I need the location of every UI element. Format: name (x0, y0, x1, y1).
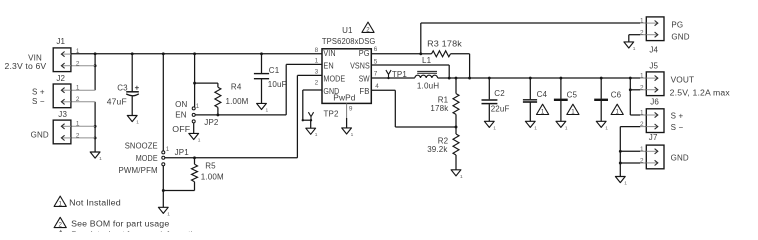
wire VOUT rail (438, 77, 641, 79)
svg-text:GND: GND (671, 153, 689, 162)
ground (JP2 OFF GND) (189, 133, 201, 143)
wire R4 bottom lead (217, 107, 219, 115)
svg-text:R1: R1 (438, 95, 449, 104)
wire stub J4 pins (640, 22, 646, 24)
capacitor C3 47uF polarized (107, 84, 139, 107)
svg-text:SW: SW (359, 74, 370, 83)
svg-text:1: 1 (76, 48, 80, 55)
svg-text:3: 3 (315, 68, 319, 75)
svg-text:178k: 178k (430, 104, 449, 113)
svg-text:GND: GND (31, 130, 49, 139)
capacitor C4 (not installed) (523, 78, 548, 121)
wire VOUT to J5.2 and J6.1 (629, 78, 631, 115)
test point TP1 (386, 70, 408, 79)
svg-text:2.5V, 1.2A max: 2.5V, 1.2A max (670, 88, 730, 97)
svg-text:1: 1 (460, 174, 463, 180)
partially clipped third legend row (55, 230, 202, 240)
svg-text:J5: J5 (649, 61, 658, 70)
svg-text:PG: PG (671, 21, 683, 30)
node junction TP2 (310, 119, 312, 121)
jumper JP2 (ON/EN/OFF) (192, 104, 219, 127)
svg-text:GND: GND (671, 32, 689, 41)
node junction J3 pin2 (94, 136, 97, 139)
wire stub J2 pin2 (71, 101, 95, 103)
warning triangle 2 (see BOM) (362, 22, 374, 33)
svg-text:47uF: 47uF (107, 98, 127, 107)
svg-text:6: 6 (374, 46, 378, 53)
wire stub J3 pin2 (71, 137, 95, 139)
wire R4 branch (195, 82, 218, 84)
test point TP2 (308, 109, 339, 120)
ground (C3 GND) (127, 116, 139, 126)
node junction R3/VOUT (468, 77, 471, 80)
svg-text:VIN: VIN (323, 49, 335, 58)
wire R1 leads (455, 78, 457, 94)
U1 pin numbers (315, 46, 380, 113)
node junction J3 pin1 (94, 125, 97, 128)
svg-text:1: 1 (616, 109, 620, 116)
svg-text:S −: S − (32, 97, 45, 106)
svg-text:2: 2 (640, 84, 644, 91)
svg-text:OFF: OFF (172, 125, 190, 134)
ground (J4 GND) (624, 42, 636, 52)
svg-text:1: 1 (76, 121, 80, 128)
svg-text:VOUT: VOUT (671, 76, 695, 85)
connector J1 (53, 48, 71, 72)
node junction PG/R3 (419, 52, 422, 55)
svg-text:Not Installed: Not Installed (69, 198, 121, 207)
svg-text:R5: R5 (205, 162, 216, 171)
svg-text:2: 2 (315, 80, 319, 87)
svg-text:1: 1 (605, 125, 608, 131)
svg-text:J1: J1 (56, 37, 65, 46)
svg-text:VSNS: VSNS (350, 62, 370, 71)
svg-text:1: 1 (167, 211, 170, 217)
node junction C5 (559, 77, 562, 80)
svg-text:4: 4 (375, 83, 379, 90)
wire stub J5 pins (640, 77, 646, 79)
svg-text:1: 1 (640, 146, 644, 153)
svg-text:1: 1 (640, 18, 644, 25)
wire stub J2 pin1 (71, 89, 95, 91)
inductor L1 1.0uH (415, 56, 440, 91)
capacitor C6 (not installed) (594, 78, 621, 121)
svg-text:1.00M: 1.00M (226, 97, 249, 106)
wire U1 GND to ground (303, 89, 322, 91)
node junction R1/VOUT (455, 77, 458, 80)
node junction J7 pin2 (619, 162, 622, 165)
not-installed triangle C6 (611, 104, 623, 115)
node junction C2 (488, 77, 491, 80)
wire U1 pin9 PwPd to ground (346, 103, 348, 118)
node junction J1 pin2 (94, 64, 97, 67)
svg-text:2: 2 (76, 60, 80, 67)
svg-text:1: 1 (266, 107, 269, 113)
ground (C1 GND) (257, 103, 269, 113)
svg-text:J2: J2 (56, 74, 65, 83)
connector J3 (53, 120, 71, 144)
node junction C3 (131, 52, 134, 55)
capacitor C2 22uF (482, 78, 510, 121)
svg-text:C2: C2 (494, 89, 505, 98)
wire C1 drop (261, 54, 263, 74)
svg-text:R4: R4 (231, 83, 242, 92)
legend triangle 1 (54, 196, 66, 207)
svg-text:C6: C6 (611, 90, 622, 99)
wire JP1 pin3 to gnd (162, 166, 164, 207)
node junction VSNS/VOUT (448, 77, 451, 80)
svg-text:1: 1 (565, 125, 568, 131)
ground (C4 GND) (525, 121, 537, 131)
ground (R2 GND) (451, 170, 463, 180)
svg-text:SNOOZE: SNOOZE (125, 142, 158, 151)
svg-text:1: 1 (196, 104, 200, 110)
wire stub J3 pin1 (71, 125, 95, 127)
wire PG net to J4 (371, 53, 421, 55)
wire SW to L1 (371, 77, 415, 79)
svg-text:L1: L1 (422, 56, 432, 65)
svg-text:EN: EN (323, 62, 333, 71)
capacitor C1 10uF (254, 66, 287, 89)
node junction C6 (600, 77, 603, 80)
svg-text:JP1: JP1 (175, 148, 190, 157)
svg-text:C3: C3 (117, 84, 128, 93)
svg-text:1.0uH: 1.0uH (417, 82, 439, 91)
wire stub J6 pins (640, 114, 646, 116)
svg-text:1: 1 (640, 73, 644, 80)
op-amp U1 TPS6208xDSG converter IC (322, 26, 376, 103)
ground (JP1 GND) (158, 207, 170, 217)
svg-text:PwPd: PwPd (333, 94, 356, 103)
not-installed triangle C5 (567, 104, 579, 115)
svg-text:1: 1 (166, 147, 170, 153)
svg-text:TP1: TP1 (392, 70, 408, 79)
svg-text:S +: S + (32, 88, 45, 97)
svg-text:1: 1 (493, 125, 496, 131)
wire R3 leads (421, 53, 432, 55)
svg-text:R3 178k: R3 178k (427, 39, 463, 48)
capacitor C5 (not installed) (554, 78, 578, 121)
wire VSNS net (371, 64, 449, 66)
wire JP2 off to gnd (193, 123, 195, 133)
svg-text:See datasheet for more informa: See datasheet for more information (71, 230, 202, 232)
wire J6.2 to J7 and ground (620, 126, 640, 128)
svg-text:1: 1 (136, 120, 139, 126)
resistor R2 39.2k (453, 134, 459, 155)
svg-text:VIN: VIN (28, 53, 42, 62)
wire J4.2 to ground (629, 34, 641, 36)
wire gnd vertical J2.2/J3 (94, 102, 96, 152)
connector J5 (646, 72, 664, 96)
svg-text:C4: C4 (537, 90, 548, 99)
ground (J2/J3 GND) (90, 152, 102, 162)
resistor R3 178k (432, 51, 451, 57)
svg-text:7: 7 (374, 71, 378, 78)
resistor R5 1.00M (192, 164, 198, 182)
jumper JP1 (SNOOZE/MODE/PWM-PFM) (162, 147, 189, 166)
wire MODE net (165, 157, 297, 159)
wire VIN rail J1.1 to U1.VIN (71, 53, 322, 55)
connector J7 (646, 145, 664, 169)
svg-text:See BOM for part usage: See BOM for part usage (71, 219, 170, 228)
ground (C2 GND) (484, 121, 496, 131)
node junction R4 top (193, 82, 196, 85)
ground (C5 GND) (556, 121, 568, 131)
svg-text:2.3V to 6V: 2.3V to 6V (5, 62, 47, 71)
svg-text:1: 1 (198, 137, 201, 143)
svg-text:1: 1 (351, 132, 354, 138)
wire EN net (195, 114, 286, 116)
node junction TP1 (387, 77, 389, 79)
svg-text:ON: ON (175, 100, 187, 109)
svg-text:U1: U1 (342, 26, 353, 35)
svg-text:PWM/PFM: PWM/PFM (119, 166, 158, 175)
svg-text:9: 9 (349, 105, 353, 112)
svg-text:1.00M: 1.00M (201, 173, 224, 182)
legend triangle 2 (54, 217, 66, 228)
svg-text:C5: C5 (567, 91, 578, 100)
svg-text:1: 1 (624, 181, 627, 187)
svg-text:EN: EN (175, 110, 186, 119)
svg-text:1: 1 (315, 132, 318, 138)
wire stub J7 pins (640, 150, 646, 152)
wire stub J1 pin2 (71, 65, 95, 67)
wire J1.2/J2.1 vertical (94, 54, 96, 90)
ground (C6 GND) (596, 121, 608, 131)
ground (J7 GND) (615, 177, 627, 187)
wire R2 leads (455, 127, 457, 134)
svg-text:J7: J7 (649, 133, 658, 142)
svg-text:8: 8 (315, 47, 319, 54)
svg-text:S −: S − (671, 123, 684, 132)
wire JP1 snooze vertical (162, 54, 164, 151)
svg-text:1: 1 (99, 156, 102, 162)
svg-text:1: 1 (534, 125, 537, 131)
node junction JP2 feed (193, 52, 196, 55)
node junction R4/EN (216, 113, 219, 116)
svg-text:1: 1 (640, 110, 644, 117)
svg-text:TPS6208xDSG: TPS6208xDSG (322, 37, 376, 46)
wire R3 to VOUT (469, 54, 471, 78)
svg-text:1: 1 (315, 57, 319, 64)
not-installed triangle C4 (537, 104, 549, 115)
svg-text:J3: J3 (58, 110, 67, 119)
svg-text:1: 1 (633, 46, 636, 52)
svg-text:MODE: MODE (323, 74, 345, 83)
svg-text:2: 2 (640, 121, 644, 128)
node junction J7 pin1 (619, 150, 622, 153)
node junction J5 branch (629, 77, 632, 80)
svg-text:1: 1 (59, 201, 63, 208)
node junction FB/R1/R2 (455, 126, 458, 129)
svg-text:2: 2 (59, 222, 63, 229)
connector J2 (53, 84, 71, 108)
wire FB net (371, 89, 395, 91)
ground (U1 GND) (306, 128, 318, 138)
resistor R4 1.00M (215, 87, 221, 107)
svg-text:TP2: TP2 (324, 109, 340, 118)
node junction JP1 gnd (162, 189, 165, 192)
svg-text:39.2k: 39.2k (427, 145, 448, 154)
connector J6 (646, 109, 664, 133)
svg-text:1: 1 (76, 85, 80, 92)
wire C3 drop (131, 54, 133, 92)
svg-text:PG: PG (359, 49, 370, 58)
svg-text:J6: J6 (650, 98, 659, 107)
node junction JP1 feed (162, 52, 165, 55)
svg-text:2: 2 (640, 29, 644, 36)
svg-text:JP2: JP2 (204, 118, 219, 127)
svg-text:C1: C1 (269, 66, 280, 75)
svg-text:2: 2 (76, 132, 80, 139)
svg-text:1: 1 (571, 109, 575, 116)
wire JP2 feed vertical (194, 54, 196, 107)
svg-text:10uF: 10uF (268, 80, 287, 89)
svg-text:MODE: MODE (136, 154, 158, 163)
svg-text:J4: J4 (649, 45, 658, 54)
svg-text:FB: FB (359, 87, 370, 96)
node junction C4 (529, 77, 532, 80)
node junction R5 top (193, 156, 196, 159)
resistor R1 178k (453, 94, 459, 115)
node junction C1 (260, 52, 263, 55)
svg-text:S +: S + (671, 112, 684, 121)
svg-text:2: 2 (76, 96, 80, 103)
wire R5 leads (194, 158, 196, 164)
svg-text:22uF: 22uF (491, 105, 510, 114)
svg-text:2: 2 (640, 158, 644, 165)
node junction VIN at x95 (94, 52, 97, 55)
ground (PwPd GND) (342, 128, 354, 138)
connector J4 (646, 17, 664, 41)
